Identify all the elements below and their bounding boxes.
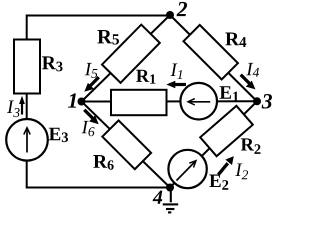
node 3 dot <box>253 97 261 105</box>
node 2 dot <box>166 11 174 19</box>
label I6 <box>82 121 95 136</box>
node label 3 <box>262 94 272 108</box>
current arrow I2 (points up-right) <box>218 156 234 175</box>
resistor R5 body <box>102 25 160 83</box>
current arrow I1 (points left) <box>166 81 186 89</box>
resistor R2 body <box>200 106 253 156</box>
node label 2 <box>177 2 188 16</box>
wire diagonal node2-node3 <box>170 15 257 101</box>
label I3 <box>7 101 20 118</box>
E1 arrow (points left) <box>188 99 210 105</box>
current arrow I3 (points up) <box>19 96 25 115</box>
node label 1 <box>68 93 76 107</box>
label I1 <box>170 64 182 79</box>
label I2 <box>235 164 248 180</box>
node 1 dot <box>78 98 86 106</box>
label E3 <box>49 128 68 142</box>
label E2 <box>209 175 228 190</box>
current arrow I4 (points down-right) <box>241 75 256 90</box>
label R5 <box>97 30 119 45</box>
resistor R4 body <box>183 25 237 79</box>
current arrow I5 (points down-left) <box>84 77 99 92</box>
label R6 <box>93 155 113 170</box>
label I5 <box>85 63 98 78</box>
wire middle rail node1-node3 <box>82 100 258 102</box>
label R2 <box>241 138 261 154</box>
source E3 circle <box>6 119 48 161</box>
label R3 <box>42 56 63 71</box>
node label 4 <box>153 191 163 204</box>
wire top: node2 to left corner <box>27 16 170 40</box>
source E1 circle <box>180 83 217 120</box>
current arrow I6 (points down-right) <box>84 110 98 124</box>
label R1 <box>136 70 155 84</box>
E3 arrow (points up) <box>24 128 30 153</box>
node 4 dot <box>166 184 174 192</box>
resistor R6 body <box>102 120 151 169</box>
label R4 <box>225 33 246 47</box>
source E2 circle <box>168 150 206 188</box>
ground symbol at node 4 <box>163 189 179 212</box>
wire diagonal node4-node3 <box>170 101 257 187</box>
label I4 <box>246 63 259 77</box>
wire diagonal node1-node4 <box>82 102 171 188</box>
resistor R1 body <box>111 90 167 115</box>
label E1 <box>220 86 239 101</box>
wire E3 bottom to bottom-left corner then node 4 <box>27 160 170 188</box>
resistor R3 body <box>14 40 40 94</box>
wire R3 bottom to E3 top <box>26 94 28 121</box>
wire diagonal node1-node2 <box>82 15 171 102</box>
E2 arrow (points up-right) <box>177 161 197 181</box>
